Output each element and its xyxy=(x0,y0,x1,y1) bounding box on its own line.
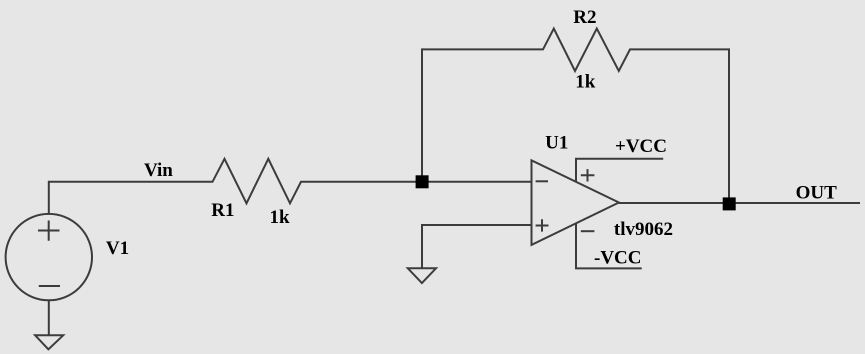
svg-text:tlv9062: tlv9062 xyxy=(614,219,673,240)
svg-text:OUT: OUT xyxy=(796,183,838,204)
svg-text:+VCC: +VCC xyxy=(615,136,667,157)
svg-text:1k: 1k xyxy=(575,72,596,93)
svg-text:1k: 1k xyxy=(270,207,291,228)
svg-text:Vin: Vin xyxy=(144,160,173,181)
svg-text:-VCC: -VCC xyxy=(594,247,642,268)
svg-text:R2: R2 xyxy=(573,7,596,28)
svg-text:V1: V1 xyxy=(106,238,129,259)
svg-text:R1: R1 xyxy=(211,200,234,221)
svg-text:U1: U1 xyxy=(545,133,568,154)
